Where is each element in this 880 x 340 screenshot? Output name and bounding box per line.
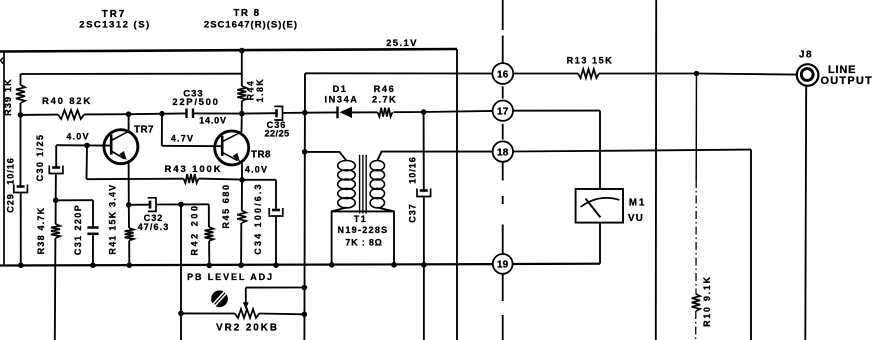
wire TR7 collector line to C33 <box>129 112 186 115</box>
jack J8 LINE OUTPUT <box>797 64 819 86</box>
svg-text:R38 4.7K: R38 4.7K <box>36 207 46 255</box>
resistor R43 100K <box>87 178 184 181</box>
node TR8 base branch junction <box>159 111 165 117</box>
node C30/R38/C31 junction <box>53 198 59 204</box>
resistor R44 1.8K <box>239 48 245 54</box>
wire to jack J8 <box>697 74 797 75</box>
adjust screw icon <box>211 290 228 307</box>
terminal 16 <box>492 63 513 84</box>
wire TR7 collector up <box>128 114 130 131</box>
wire VR2 left feed down <box>180 204 182 313</box>
svg-text:TR8: TR8 <box>251 150 271 161</box>
wire emitter to C32 <box>129 204 150 206</box>
wire R39 to node <box>20 103 22 115</box>
svg-text:C30 1/25: C30 1/25 <box>35 134 45 182</box>
svg-text:R45 680: R45 680 <box>221 183 231 228</box>
node C36/D1/VR2 junction <box>302 110 308 116</box>
wire node to C31 <box>56 199 93 201</box>
terminal 19 <box>493 254 513 274</box>
transistor TR7 2SC1312(S) <box>104 130 138 164</box>
wire left y74 line to R44 top <box>21 73 242 75</box>
transformer T1 N19-228S 7K:8ohm <box>305 152 493 265</box>
svg-text:R41 15K 3.4V: R41 15K 3.4V <box>108 184 118 255</box>
svg-text:M1: M1 <box>629 198 646 209</box>
wire left edge vertical <box>3 51 5 265</box>
svg-text:10/16: 10/16 <box>6 157 16 185</box>
node R46/C37 junction <box>421 109 427 115</box>
svg-text:4.0V: 4.0V <box>66 132 89 142</box>
wire TR8 base branch <box>161 114 163 146</box>
wire TR8 collector up <box>241 114 243 132</box>
node R39/R40/C29 junction <box>18 112 24 118</box>
capacitor C30 1/25 <box>52 166 60 169</box>
wire collector node to C36 <box>242 112 276 114</box>
wire terminal bus vertical <box>502 0 504 30</box>
svg-text:C29: C29 <box>6 193 16 213</box>
svg-text:D1: D1 <box>333 84 348 94</box>
wire junction to terminal 17 <box>424 111 493 112</box>
node TR8 emitter junction <box>239 177 245 183</box>
capacitor C34 100/6.3 <box>272 209 280 212</box>
svg-text:OUTPUT: OUTPUT <box>821 75 873 87</box>
capacitor C29 10/16 <box>17 185 25 188</box>
svg-text:7K : 8Ω: 7K : 8Ω <box>345 238 382 248</box>
svg-text:25.1V: 25.1V <box>386 38 418 49</box>
svg-text:18: 18 <box>497 147 509 158</box>
svg-text:R39 1K: R39 1K <box>3 78 13 116</box>
wire down to C29 <box>20 115 22 186</box>
wire 4.0V node to C30 <box>56 144 87 146</box>
svg-text:VR2 20KB: VR2 20KB <box>216 323 279 334</box>
wire R42 to ground rail <box>208 241 210 265</box>
wire C32 to node <box>156 203 181 205</box>
resistor R40 82K <box>21 114 59 116</box>
wire below rail off page <box>423 265 425 340</box>
capacitor C37 10/16 <box>423 112 425 190</box>
svg-text:2SC1647(R)(S)(E): 2SC1647(R)(S)(E) <box>204 20 298 31</box>
diode D1 IN34A <box>305 111 338 113</box>
wire meter to rail <box>599 223 601 264</box>
wire TR7 base <box>87 144 111 146</box>
transistor TR8 2SC1647(R)(S)(E) <box>215 131 249 165</box>
svg-text:R42 200: R42 200 <box>190 203 200 255</box>
svg-text:R43 100K: R43 100K <box>165 164 223 175</box>
capacitor C33 22P/500 <box>185 109 187 119</box>
svg-text:K: K <box>0 56 5 66</box>
resistor R10 9.1K <box>695 74 697 91</box>
wire C36 to vertical bus node <box>283 112 305 114</box>
wire node16 corner vertical <box>303 73 306 340</box>
svg-text:R13 15K: R13 15K <box>567 56 614 66</box>
terminal 17 <box>493 101 513 121</box>
wire R39 top feed <box>20 74 22 85</box>
svg-text:T1: T1 <box>354 214 368 224</box>
svg-text:R40 82K: R40 82K <box>42 96 92 107</box>
wire C30 to node <box>55 175 57 201</box>
resistor R38 4.7K <box>55 200 57 224</box>
wire bottom common rail <box>0 264 493 265</box>
resistor R41 15K 3.4V <box>128 205 130 228</box>
wire supply rail drop to node 16 area <box>456 49 458 340</box>
svg-text:1.8K: 1.8K <box>255 78 265 103</box>
svg-text:R10 9.1K: R10 9.1K <box>702 275 712 327</box>
wire node 18 to output divider <box>513 150 751 152</box>
resistor R46 2.7K <box>352 111 378 113</box>
svg-text:R46: R46 <box>374 84 396 94</box>
svg-text:C31 220P: C31 220P <box>73 204 83 255</box>
capacitor C36 22/25 <box>275 109 278 117</box>
svg-text:22P/500: 22P/500 <box>172 97 219 108</box>
svg-text:4.7V: 4.7V <box>171 134 194 144</box>
wire TR8 emitter down <box>241 161 243 180</box>
potentiometer VR2 20KB PB LEVEL ADJ <box>178 285 307 318</box>
wire C31 to ground rail <box>92 234 94 265</box>
svg-text:16: 16 <box>497 69 509 80</box>
svg-text:J8: J8 <box>799 50 813 61</box>
node C32/R42/VR2 junction <box>178 202 184 208</box>
svg-text:22/25: 22/25 <box>265 129 290 139</box>
svg-text:TR7: TR7 <box>134 125 154 136</box>
node TR7 emitter junction <box>126 202 132 208</box>
wire 25.1V top supply rail <box>0 49 457 52</box>
resistor R39 1K <box>16 85 25 103</box>
wire to R42 corner <box>181 203 209 205</box>
svg-text:2.7K: 2.7K <box>372 95 397 105</box>
node TR7 base junction <box>84 143 90 149</box>
svg-text:PB LEVEL ADJ: PB LEVEL ADJ <box>187 272 274 282</box>
svg-text:17: 17 <box>497 107 509 118</box>
node R10 junction <box>694 71 700 77</box>
svg-text:R44: R44 <box>246 80 256 101</box>
node R44 / TR8 collector junction <box>239 111 245 117</box>
wire node 17 to meter <box>513 110 600 112</box>
wire down to C30 <box>55 145 57 166</box>
svg-text:C34 100/6.3: C34 100/6.3 <box>253 182 263 254</box>
wire R38 down through rail off page <box>54 238 57 340</box>
svg-text:TR7: TR7 <box>102 9 127 20</box>
wire R41 to ground rail <box>128 241 130 266</box>
resistor R45 680 <box>241 180 243 211</box>
wire node 16 to corner <box>305 72 492 74</box>
node transformer primary top junction <box>302 149 308 155</box>
wire C33 right to R44 node <box>193 112 242 114</box>
svg-text:LINE: LINE <box>828 64 856 76</box>
wire C29 to ground rail <box>20 194 22 266</box>
resistor R42 200 <box>208 204 210 227</box>
capacitor C31 220P <box>87 226 98 229</box>
svg-text:VU: VU <box>628 213 644 224</box>
capacitor C32 47/6.3 <box>149 201 152 209</box>
wire vertical boundary line <box>655 0 657 340</box>
wire TR7 emitter down <box>128 160 130 205</box>
wire to C34 <box>242 179 276 181</box>
meter M1 VU <box>576 189 623 223</box>
svg-text:N19-228S: N19-228S <box>338 225 389 235</box>
svg-text:47/6.3: 47/6.3 <box>138 222 170 232</box>
node TR7 collector junction <box>126 111 132 117</box>
svg-text:10/16: 10/16 <box>408 156 418 184</box>
svg-text:4.0V: 4.0V <box>245 165 268 175</box>
svg-text:14.0V: 14.0V <box>199 116 227 126</box>
resistor R13 15K <box>513 73 578 75</box>
svg-text:C37: C37 <box>408 203 418 223</box>
wire TR7 base down leg <box>86 145 89 179</box>
wire VR2 left below rail off page <box>180 313 182 340</box>
svg-text:TR 8: TR 8 <box>233 8 260 19</box>
svg-text:19: 19 <box>497 260 509 271</box>
wire J8 sleeve down <box>804 86 807 340</box>
svg-text:IN34A: IN34A <box>324 95 358 105</box>
svg-text:2SC1312 (S): 2SC1312 (S) <box>79 20 150 31</box>
wire R40 to TR7 collector <box>84 113 129 115</box>
terminal 18 <box>493 141 513 161</box>
